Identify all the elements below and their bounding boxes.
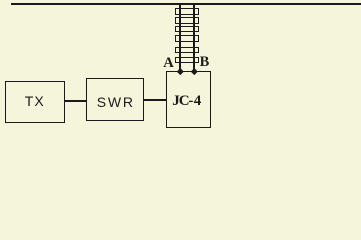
wire TX to SWR: [65, 100, 86, 102]
ladder-line spacer rung 4: [175, 35, 200, 41]
node B junction dot: [191, 68, 197, 74]
wire top feeder line: [11, 3, 361, 5]
ladder-line spacer rung 6: [175, 57, 200, 63]
ladder-line spacer rung 3: [175, 26, 200, 32]
box U2 SWR meter: [86, 78, 145, 121]
wire SWR to JC-4: [144, 99, 166, 101]
label TX: [5, 95, 66, 108]
wire ladder-line left conductor: [179, 4, 181, 72]
box U1 TX transmitter: [5, 81, 66, 124]
node A junction dot: [177, 68, 183, 74]
label SWR: [86, 96, 145, 109]
node B label: [197, 56, 213, 70]
wire ladder-line right conductor: [193, 4, 195, 72]
ladder-line spacer rung 2: [175, 17, 200, 23]
box U3 JC-4 antenna tuner: [166, 71, 211, 128]
ladder-line spacer rung 1: [175, 8, 200, 14]
label JC-4: [172, 95, 201, 108]
ladder-line spacer rung 5: [175, 47, 200, 53]
node A label: [161, 57, 177, 71]
